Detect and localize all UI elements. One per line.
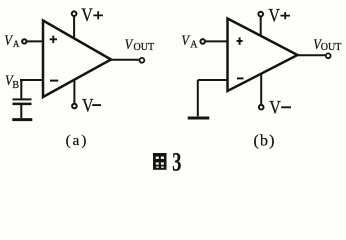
svg-text:V: V (181, 32, 190, 48)
svg-text:V: V (82, 94, 94, 116)
svg-text:(a): (a) (66, 133, 89, 149)
svg-text:OUT: OUT (321, 42, 342, 53)
svg-text:OUT: OUT (134, 42, 155, 53)
svg-text:V: V (81, 4, 93, 26)
svg-text:A: A (190, 40, 198, 51)
svg-text:3: 3 (172, 147, 181, 176)
svg-text:A: A (13, 39, 20, 49)
svg-text:(b): (b) (253, 133, 275, 150)
svg-text:V: V (268, 4, 280, 26)
svg-text:B: B (12, 80, 19, 91)
svg-text:V: V (269, 96, 281, 118)
svg-text:V: V (125, 36, 134, 52)
